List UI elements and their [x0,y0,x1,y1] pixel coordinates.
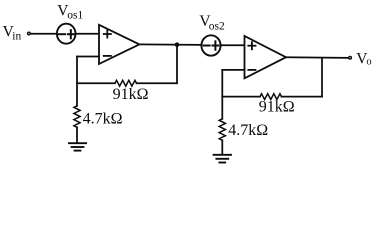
wire feedback vertical to output node [176,45,178,83]
wire U1 output [139,43,201,46]
source Vos2 [201,35,220,55]
source Vos1 label [57,2,83,21]
wire U2 - input [222,69,244,71]
ground (stage 2) [214,154,231,156]
wire feedback vertical to output [321,58,323,97]
svg-text:o: o [366,56,371,67]
wire node B vertical [76,57,78,106]
value label 4.7kΩ (R4) [228,122,268,139]
value label 91kΩ (R3) [259,99,295,116]
svg-text:91kΩ: 91kΩ [113,86,149,103]
input terminal [28,32,31,35]
wire feedback (stage 2) left segment [222,96,260,98]
wire Vos1 to op-amp U1 + input [76,33,99,35]
value label 91kΩ (R1) [113,86,149,103]
value label 4.7kΩ (R2) [83,111,123,128]
wire R2 to ground [76,127,78,143]
svg-text:4.7kΩ: 4.7kΩ [228,122,268,139]
svg-text:os1: os1 [67,10,83,22]
resistor R3 91k (stage 2) [260,94,282,100]
output terminal [349,56,352,59]
op-amp U1 [99,25,139,64]
wire Vos2 to op-amp U2 + input [221,44,245,46]
svg-text:os2: os2 [209,20,225,32]
wire U1 - input [77,56,99,58]
resistor R2 4.7k (stage 1) [74,106,80,128]
wire feedback (stage 1) left segment [77,82,115,84]
wire Vin to Vos1 [31,33,57,35]
wire U2 output to Vo [286,56,348,59]
op-amp U2 [245,36,287,78]
node Vo label [356,51,371,68]
resistor R4 4.7k (stage 2) [219,119,225,141]
svg-text:91kΩ: 91kΩ [259,99,295,116]
ground (stage 1) [69,142,86,144]
source Vos1 [57,24,76,44]
wire feedback (stage 1) right segment [137,82,178,84]
resistor R1 91k (stage 1) [115,80,137,86]
svg-text:in: in [12,31,21,43]
wire node C vertical [221,70,223,119]
node A junction dot [175,42,180,47]
source Vos2 label [199,13,225,33]
wire R4 to ground [221,140,223,154]
wire feedback (stage 2) right segment [282,96,323,98]
svg-text:4.7kΩ: 4.7kΩ [83,111,123,128]
node Vin label [3,23,22,42]
